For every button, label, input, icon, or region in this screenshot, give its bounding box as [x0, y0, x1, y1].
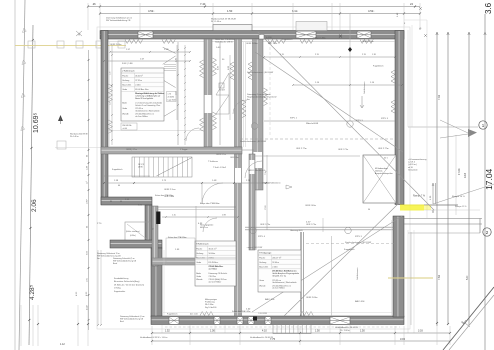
svg-text:OKF 2.77m: OKF 2.77m — [296, 148, 307, 150]
svg-text:Großelemente | Wechselteile: Großelemente | Wechselteile — [135, 109, 159, 112]
svg-text:Überzug 40/8: Überzug 40/8 — [290, 229, 303, 232]
svg-text:OKFF 2.63m: OKFF 2.63m — [246, 43, 258, 45]
svg-text:Fläche: Fläche — [259, 257, 266, 259]
svg-text:1.52: 1.52 — [165, 330, 170, 333]
svg-text:7 Schleuse: 7 Schleuse — [208, 161, 219, 163]
svg-text:OKFF 2.63m: OKFF 2.63m — [110, 44, 122, 46]
svg-text:Bswf: Bswf — [113, 263, 118, 265]
svg-text:2 Kellerraum: 2 Kellerraum — [122, 70, 135, 73]
svg-text:3.03: 3.03 — [400, 337, 406, 341]
svg-text:1.15: 1.15 — [172, 215, 176, 217]
svg-text:40: 40 — [120, 201, 122, 203]
svg-text:Gewählt. 5m² 5a: Gewählt. 5m² 5a — [272, 274, 287, 277]
svg-text:2.06: 2.06 — [31, 199, 38, 212]
svg-text:Anspräch entsprüher: Anspräch entsprüher — [375, 172, 393, 175]
svg-text:75: 75 — [153, 228, 155, 230]
svg-text:1.43⁵: 1.43⁵ — [212, 180, 217, 182]
svg-text:60: 60 — [118, 185, 120, 187]
svg-text:86: 86 — [110, 201, 112, 203]
svg-text:OKF 2.77m: OKF 2.77m — [306, 224, 317, 226]
svg-text:WS Verbundabmessung CB: WS Verbundabmessung CB — [97, 255, 121, 258]
svg-text:OKFF 2.7ma: OKFF 2.7ma — [164, 189, 176, 191]
svg-text:Streifenfundament | BO.RÜW: Streifenfundament | BO.RÜW — [240, 140, 266, 143]
svg-text:Gefällebeweis: Gefällebeweis — [357, 267, 359, 280]
svg-text:4.52⁵: 4.52⁵ — [368, 9, 374, 13]
svg-text:4.28⁵: 4.28⁵ — [29, 284, 36, 300]
svg-text:8 Kellerraum: 8 Kellerraum — [196, 243, 209, 246]
svg-text:OKF 2.2m: OKF 2.2m — [230, 157, 239, 159]
svg-text:1.50: 1.50 — [227, 9, 233, 13]
svg-text:Wande: Wande — [259, 285, 266, 287]
svg-text:1.12: 1.12 — [60, 343, 65, 346]
svg-text:3.86⁵ | 1.86⁵: 3.86⁵ | 1.86⁵ — [122, 63, 133, 65]
svg-text:W+1.40 m: W+1.40 m — [70, 136, 79, 138]
svg-text:Fläche: Fläche — [122, 75, 129, 77]
svg-text:10.69⁵: 10.69⁵ — [33, 112, 40, 133]
svg-text:Baurichtm: Baurichtm — [122, 84, 131, 87]
svg-text:(Kühle. interface): (Kühle. interface) — [126, 230, 140, 233]
svg-text:FD-W Bez.: FD-W Bez. — [209, 262, 219, 264]
svg-text:als 5cm Rißber: als 5cm Rißber — [135, 115, 148, 118]
svg-text:den 1.0er: den 1.0er — [190, 313, 198, 316]
svg-text:Lage Stahl: Lage Stahl — [168, 99, 177, 102]
svg-text:Verblendband tLr 24-36 CB: Verblendband tLr 24-36 CB — [335, 326, 359, 329]
svg-text:246.07 m²: 246.07 m² — [272, 256, 281, 259]
svg-text:als 5cm Rißber: als 5cm Rißber — [272, 287, 285, 290]
svg-text:1.18: 1.18 — [372, 54, 376, 56]
svg-text:1 Reihg: 1 Reihg — [114, 288, 121, 290]
svg-text:BAV 1.894: BAV 1.894 — [355, 300, 365, 303]
svg-text:OKF 2.77m: OKF 2.77m — [338, 149, 349, 151]
svg-text:W 1 1.40 m: W 1 1.40 m — [211, 21, 222, 23]
svg-text:Stg 14 d=300: Stg 14 d=300 — [205, 306, 216, 309]
svg-text:7.62: 7.62 — [437, 274, 441, 280]
svg-text:1 Treppe: 1 Treppe — [180, 148, 187, 151]
svg-text:Rampe 15 %: Rampe 15 % — [452, 196, 465, 198]
svg-text:als 5cm Rißber: als 5cm Rißber — [209, 280, 222, 283]
svg-text:STPL 1: STPL 1 — [290, 118, 298, 120]
svg-text:3.03: 3.03 — [418, 330, 423, 333]
svg-text:Wande: Wande — [196, 279, 203, 281]
svg-text:17/28: 17/28 — [265, 206, 267, 211]
svg-text:4.16: 4.16 — [463, 172, 467, 178]
svg-text:FD-W.Bez.Nau: FD-W.Bez.Nau — [135, 89, 148, 91]
svg-text:OKFF 2.7m: OKFF 2.7m — [216, 154, 226, 156]
svg-text:Umfang: Umfang — [196, 253, 203, 255]
svg-text:Fläche: Fläche — [196, 248, 203, 250]
svg-text:Bsol: Bsol — [120, 321, 124, 323]
svg-text:BAV 1.894: BAV 1.894 — [265, 298, 275, 301]
svg-text:±0.00: ±0.00 — [123, 128, 127, 130]
svg-text:□ 20 32/35: □ 20 32/35 — [258, 312, 267, 315]
svg-text:30.01 m²: 30.01 m² — [209, 247, 217, 250]
svg-text:OKF 2.77m: OKF 2.77m — [378, 148, 389, 150]
svg-text:4.52⁵: 4.52⁵ — [148, 9, 154, 13]
svg-text:WV Verbundabdichtung CB: WV Verbundabdichtung CB — [106, 19, 131, 22]
svg-text:Fugenblech: Fugenblech — [112, 169, 122, 171]
svg-text:STPL 3: STPL 3 — [356, 120, 363, 122]
svg-text:Estrps über PTA 6/3dm: Estrps über PTA 6/3dm — [200, 202, 220, 205]
svg-text:Rampe 7 %: Rampe 7 % — [413, 196, 425, 198]
svg-text:50.60m: 50.60m — [209, 253, 216, 255]
svg-text:20 32/35: 20 32/35 — [168, 97, 175, 99]
svg-text:.26: .26 — [92, 2, 96, 6]
svg-text:STPL 5: STPL 5 — [355, 236, 363, 238]
svg-text:OKF 2.77m: OKF 2.77m — [260, 224, 271, 226]
svg-text:/28 St: /28 St — [138, 166, 143, 169]
svg-text:Gode Bau 3 | 1.88 m²: Gode Bau 3 | 1.88 m² — [215, 41, 233, 44]
svg-text:Profilierung: Profilierung — [205, 301, 215, 304]
svg-text:1.40⁵: 1.40⁵ — [216, 47, 221, 49]
svg-text:BW 08.20b: BW 08.20b — [123, 125, 132, 127]
svg-text:1.00: 1.00 — [210, 330, 215, 333]
svg-text:1.76: 1.76 — [168, 94, 172, 96]
svg-text:Umfang: Umfang — [122, 80, 129, 82]
svg-text:Großelemente | Wechselteile: Großelemente | Wechselteile — [272, 281, 296, 284]
svg-text:40/24 cm: 40/24 cm — [200, 227, 208, 229]
svg-text:11²: 11² — [86, 181, 89, 184]
svg-text:ref 10: ref 10 — [408, 166, 413, 169]
svg-text:Fugenblech: Fugenblech — [167, 314, 177, 316]
svg-text:Stütze über PTA 6/3dm: Stütze über PTA 6/3dm — [155, 194, 174, 197]
svg-text:270.35m: 270.35m — [209, 276, 217, 278]
svg-text:1.98: 1.98 — [222, 215, 226, 217]
svg-text:Kerndabdichtung: Kerndabdichtung — [114, 277, 128, 280]
svg-text:...ament | BO.RÜW: ...ament | BO.RÜW — [246, 246, 262, 249]
svg-text:4.10: 4.10 — [262, 330, 267, 333]
svg-text:Gestankste: Gestankste — [408, 168, 418, 171]
svg-text:9m²: 9m² — [97, 257, 101, 260]
svg-text:Mehrspaniges: Mehrspaniges — [205, 298, 217, 301]
svg-text:Rampe 15 %: Rampe 15 % — [455, 206, 467, 208]
svg-text:2.26m: 2.26m — [272, 267, 278, 269]
svg-text:1.50: 1.50 — [360, 330, 365, 333]
svg-text:STPL 4: STPL 4 — [258, 236, 266, 238]
svg-text:Verblendband LK 33 W + 1.00 m: Verblendband LK 33 W + 1.00 m — [140, 336, 168, 339]
svg-text:OKFF | 2.7m: OKFF | 2.7m — [126, 149, 137, 151]
svg-text:90: 90 — [368, 209, 370, 211]
svg-text:als Rißber: als Rißber — [209, 267, 218, 270]
svg-text:Wdschd 40/8: Wdschd 40/8 — [306, 123, 319, 125]
svg-text:OKFF 2.63m: OKFF 2.63m — [306, 297, 318, 299]
svg-text:Kapputverlän: Kapputverlän — [114, 290, 125, 293]
svg-text:OKFF 2.63m: OKFF 2.63m — [305, 205, 316, 207]
svg-text:Hauptfassdämmung (Gewerk) 02: Hauptfassdämmung (Gewerk) 02 — [247, 96, 277, 99]
svg-text:STPL 3: STPL 3 — [381, 118, 389, 120]
svg-text:7.44: 7.44 — [200, 2, 206, 6]
svg-text:2.26m: 2.26m — [135, 85, 141, 87]
svg-text:BW | 1.86s: BW | 1.86s — [268, 43, 277, 45]
svg-text:7.02: 7.02 — [437, 94, 441, 100]
svg-text:4.28⁵: 4.28⁵ — [76, 291, 78, 296]
svg-text:Fugenblech: Fugenblech — [282, 39, 292, 41]
svg-text:1.80⁵: 1.80⁵ — [87, 199, 89, 204]
svg-text:17.04: 17.04 — [457, 168, 461, 175]
svg-text:Basis 2K hochgeführt: Basis 2K hochgeführt — [135, 97, 153, 100]
svg-text:2K Sd5e-Da ~02 mit über (Dänis: 2K Sd5e-Da ~02 mit über (Dänisch) — [114, 283, 144, 286]
svg-text:9 Tiefgarage: 9 Tiefgarage — [259, 252, 272, 255]
svg-text:7.75: 7.75 — [270, 337, 276, 341]
svg-text:1.50: 1.50 — [315, 330, 320, 333]
svg-text:Stütze über PTA 6/3dm: Stütze über PTA 6/3dm — [168, 236, 187, 239]
svg-text:Fugenblech: Fugenblech — [373, 66, 383, 68]
svg-text:7 Schl. 4.31m²: 7 Schl. 4.31m² — [213, 166, 226, 169]
svg-text:Baurichtm: Baurichtm — [259, 266, 268, 269]
svg-text:5.0⁵: 5.0⁵ — [465, 275, 469, 280]
svg-text:Bkw | 1.86a: Bkw | 1.86a — [315, 38, 326, 40]
svg-text:OKFF 1.43m 8G 00.0: OKFF 1.43m 8G 00.0 — [248, 170, 265, 172]
svg-text:Fugenblech: Fugenblech — [344, 249, 354, 251]
svg-text:92.44m: 92.44m — [272, 262, 279, 264]
svg-text:(+4.20 m²): (+4.20 m²) — [408, 163, 417, 166]
svg-text:27.95m: 27.95m — [135, 80, 142, 82]
svg-text:6m: 6m — [247, 99, 250, 101]
svg-text:Inf 1: Inf 1 — [384, 158, 388, 160]
svg-text:□ W 30.0 Türblensterei: □ W 30.0 Türblensterei — [262, 182, 281, 185]
svg-text:Wandb: Wandb — [122, 113, 129, 115]
svg-text:4.28⁵: 4.28⁵ — [86, 291, 88, 296]
svg-text:50 32/8: 50 32/8 — [266, 37, 272, 39]
svg-text:2.26: 2.26 — [110, 102, 112, 106]
svg-text:Schicht 2 cm Dämmträg. Plan: Schicht 2 cm Dämmträg. Plan — [135, 104, 160, 107]
svg-text:Umfang: Umfang — [259, 262, 266, 264]
svg-text:(0.34a): (0.34a) — [130, 235, 136, 237]
svg-text:46.02m²: 46.02m² — [135, 74, 143, 77]
svg-text:W + 1.00 m: W + 1.00 m — [340, 330, 350, 332]
svg-text:1.36: 1.36 — [110, 72, 112, 76]
svg-text:Bituminöse Dichtschicht(Burg): Bituminöse Dichtschicht(Burg) — [114, 280, 140, 283]
svg-text:3.6: 3.6 — [484, 2, 493, 14]
svg-text:Gefällebeweis: Gefällebeweis — [364, 81, 366, 94]
svg-text:Dämmung CB Schicht: Dämmung CB Schicht — [209, 272, 228, 275]
